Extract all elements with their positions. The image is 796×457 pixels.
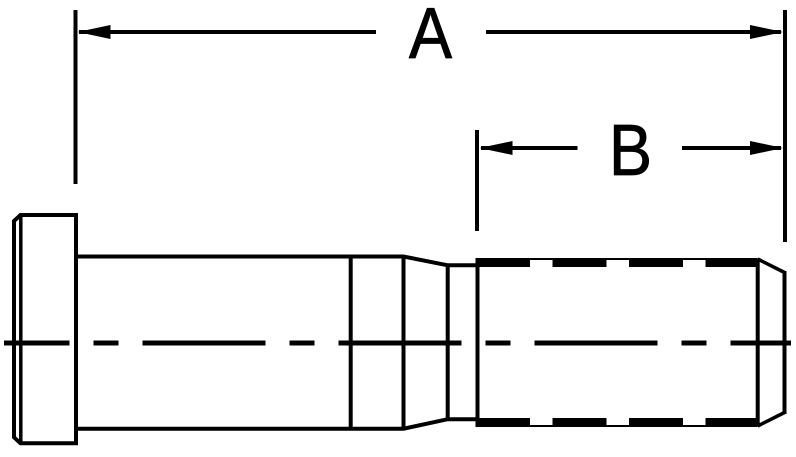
dimension line A left segment xyxy=(79,30,376,34)
extension line left (dimension B) xyxy=(475,130,479,231)
stud right end cap xyxy=(783,271,787,414)
neck divider 3 xyxy=(446,264,450,421)
thread crest dashes bottom xyxy=(476,418,759,425)
arrowhead A left xyxy=(78,25,111,39)
head outline xyxy=(14,215,76,443)
arrowhead B left xyxy=(480,141,513,155)
shank divider 1 xyxy=(349,255,353,431)
svg-text:A: A xyxy=(409,0,453,74)
extension line left (dimension A) xyxy=(74,10,78,184)
arrowhead B right xyxy=(750,141,783,155)
thread start vertical xyxy=(476,258,480,427)
thread end vertical xyxy=(756,259,760,426)
shank bottom edge xyxy=(76,419,478,429)
head chamfer inner line xyxy=(19,214,23,444)
shank top edge xyxy=(76,257,478,266)
dimension line B right segment xyxy=(682,146,781,150)
arrowhead A right xyxy=(750,25,783,39)
thread major diameter bottom line xyxy=(478,425,758,427)
shank divider 2 xyxy=(402,255,406,431)
thread end chamfer bottom xyxy=(758,413,785,427)
centerline xyxy=(4,341,791,346)
dimension line B left segment xyxy=(481,146,578,150)
dimension line A right segment xyxy=(486,30,781,34)
thread major diameter top line xyxy=(478,258,758,260)
svg-text:B: B xyxy=(609,110,652,191)
thread crest dashes top xyxy=(476,260,759,267)
extension line right (dimensions A and B) xyxy=(783,10,787,242)
thread end chamfer top xyxy=(758,259,785,273)
